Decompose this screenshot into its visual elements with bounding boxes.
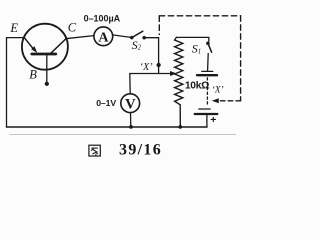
transistor emitter arrowhead xyxy=(32,47,37,52)
dashed black-box left edge xyxy=(158,16,160,35)
svg-text:+: + xyxy=(210,114,216,126)
svg-text:E: E xyxy=(9,21,18,35)
svg-text:B: B xyxy=(29,67,37,81)
dashed arrow head xyxy=(213,99,219,103)
junction dot resistor to bottom wire xyxy=(179,125,182,128)
voltmeter U2 circle xyxy=(121,94,140,113)
transistor base bar xyxy=(32,53,56,56)
svg-text:A: A xyxy=(98,30,109,45)
wire S1 to battery xyxy=(207,54,210,71)
dashed black-box right edge xyxy=(240,16,242,101)
resistor R 10k zigzag xyxy=(175,37,183,127)
collector wire to ammeter xyxy=(66,36,94,39)
switch S2 right terminal dot xyxy=(143,36,146,39)
wire ammeter to switch S2 xyxy=(113,35,132,38)
transistor body circle xyxy=(22,24,68,70)
dashed black-box top edge xyxy=(159,15,240,17)
svg-text:S1: S1 xyxy=(192,42,201,56)
wire resistor top to switch S1 xyxy=(176,37,208,41)
battery bottom stub wire xyxy=(206,115,208,127)
svg-text:C: C xyxy=(68,21,77,35)
switch S1 top terminal dot xyxy=(206,42,209,45)
bottom wire xyxy=(7,126,208,128)
svg-text:V: V xyxy=(125,96,136,112)
transistor base lead wire xyxy=(46,55,48,83)
switch S1 blade xyxy=(208,44,211,52)
voltmeter bottom wire xyxy=(130,113,132,127)
transistor emitter line xyxy=(24,38,33,50)
emitter wire to left side and down xyxy=(7,38,25,127)
battery cell 2 long thick plate xyxy=(195,113,218,115)
battery cell 1 short plate xyxy=(202,70,213,72)
caption hanzi tu (drawn) xyxy=(89,145,100,156)
svg-text:0–1V: 0–1V xyxy=(96,98,116,108)
svg-text:‘X’: ‘X’ xyxy=(140,62,153,73)
wiper arrowhead xyxy=(170,72,175,76)
transistor collector line xyxy=(50,39,66,55)
potentiometer wiper line xyxy=(130,74,172,94)
battery cell 1 long thick plate xyxy=(197,74,217,76)
svg-text:10kΩ: 10kΩ xyxy=(185,81,210,92)
node X terminal dot xyxy=(157,63,161,67)
switch S2 blade xyxy=(132,31,143,37)
svg-text:S2: S2 xyxy=(132,38,142,52)
dashed arrow toward internal X xyxy=(218,100,241,102)
battery cell 2 short plate xyxy=(199,108,210,110)
faint print artifact line xyxy=(10,134,236,136)
switch S2 left terminal dot xyxy=(130,36,133,39)
svg-text:39/16: 39/16 xyxy=(119,142,161,159)
ammeter U1 circle xyxy=(94,27,113,46)
junction dot voltmeter to bottom wire xyxy=(129,125,132,128)
wire S2 to corner and down to wiper xyxy=(144,38,158,74)
svg-text:‘X’: ‘X’ xyxy=(212,85,224,95)
svg-text:0–100µA: 0–100µA xyxy=(84,14,121,24)
base terminal dot xyxy=(45,82,49,86)
battery omitted cells dashed link xyxy=(206,78,208,107)
